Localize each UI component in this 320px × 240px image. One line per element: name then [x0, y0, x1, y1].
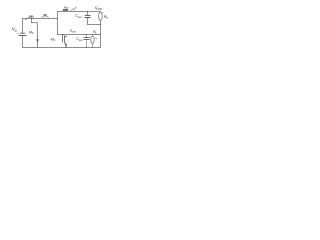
- wire left vertical node column: [56, 11, 58, 34]
- wire M0 branch: down from left wire, jog right, down to ground: [31, 18, 37, 47]
- svg-text:Vout: Vout: [70, 29, 76, 34]
- load current source (capsule): [91, 36, 94, 43]
- arrow M1 source: [65, 44, 67, 46]
- switch M2 (lever + tick) on left wire: [25, 16, 31, 19]
- transistor M1: [62, 34, 66, 47]
- wire Vin source bottom lead: [21, 36, 23, 48]
- capacitor CL leads: [86, 34, 88, 47]
- svg-text:Cout: Cout: [76, 37, 82, 42]
- switch on VDD rail (second): [70, 8, 74, 11]
- wire bottom ground rail: [22, 46, 100, 48]
- svg-text:Rb: Rb: [104, 15, 109, 20]
- junction dots: [31, 11, 101, 48]
- dark apex mark of second element: [44, 14, 47, 16]
- tick right of current source top: [102, 12, 104, 14]
- svg-text:Cout: Cout: [75, 14, 81, 19]
- capacitor CL plates: [84, 38, 89, 40]
- voltage source Vin (battery bars): [19, 33, 27, 35]
- wire right vertical (output node column): [99, 20, 101, 47]
- component body on VDD rail (dark bar): [63, 9, 67, 11]
- svg-text:Vin: Vin: [12, 27, 18, 33]
- capacitor Cout plates: [85, 16, 90, 18]
- svg-text:M1: M1: [51, 37, 56, 42]
- plus mark near Vin source: [17, 32, 19, 34]
- current source top right (capsule): [99, 12, 103, 20]
- transistor M0 mark (arrow on branch): [36, 39, 39, 42]
- wire Vin top corner and left wire: [22, 18, 57, 32]
- svg-text:M0: M0: [29, 30, 34, 35]
- svg-text:M2: M2: [29, 14, 34, 20]
- svg-text:VDD: VDD: [95, 5, 102, 11]
- wire output rail: [57, 33, 100, 35]
- transistor glyph on left wire (second element, trapezoid): [41, 16, 49, 18]
- wire top VDD rail: [57, 10, 100, 13]
- wire Cout branch: from VDD rail down to cap, then to output column: [86, 11, 88, 15]
- load leads: [92, 34, 94, 47]
